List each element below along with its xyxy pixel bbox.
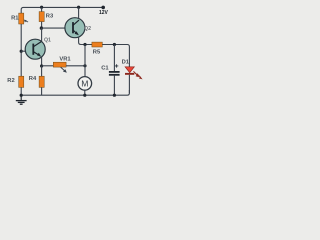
wire: R1 bottom down through base node to R2 <box>20 24 22 76</box>
resistor R3 <box>39 12 44 22</box>
wire: C1 branch top <box>113 45 115 72</box>
wire: +12V top rail from above R1 to supply terminal <box>21 7 102 14</box>
resistor R5 <box>92 42 102 47</box>
LED D1 <box>125 67 134 73</box>
background <box>0 0 150 108</box>
wire: R2 bottom to ground rail <box>20 87 22 95</box>
VR1 wiper arrow <box>61 67 66 71</box>
svg-text:R3: R3 <box>46 14 54 20</box>
wire: base wire to Q2 <box>42 27 73 29</box>
wire: motor bottom to ground rail <box>84 90 86 95</box>
C1 plus sign <box>115 64 118 67</box>
wire: Q1 base wire <box>21 50 33 52</box>
wire: Q1 emitter down to VR1 node <box>41 57 43 66</box>
wire: D1 cathode down <box>128 75 130 93</box>
wire: to VR1 left terminal <box>42 65 54 67</box>
svg-text:R2: R2 <box>7 78 14 84</box>
svg-text:D1: D1 <box>122 60 130 66</box>
wire: Q2 emitter down, R5 rail across, down to D1 <box>79 37 130 67</box>
transistor Q1 <box>25 39 45 59</box>
motor M <box>78 77 92 91</box>
svg-text:R5: R5 <box>93 50 101 56</box>
transistor Q2 <box>65 18 85 38</box>
node: top rail / Q2 collector junction <box>77 6 80 9</box>
wire: motor branch vertical <box>84 45 86 77</box>
node: ground / C1 junction <box>113 94 116 97</box>
node: VR1 / motor branch junction <box>83 64 86 67</box>
node: R3 / Q2 base / Q1 collector junction <box>40 26 43 29</box>
svg-text:R1: R1 <box>11 15 19 21</box>
wire: R4 bottom to ground rail <box>41 87 43 95</box>
svg-text:C1: C1 <box>101 66 109 72</box>
wire: down to Q1 collector <box>41 28 43 42</box>
wire: R4 top <box>41 66 43 76</box>
svg-text:Q2: Q2 <box>84 26 91 32</box>
wire: R3 bottom to base node <box>41 22 43 29</box>
node: emitter rail / motor junction <box>83 43 86 46</box>
potentiometer VR1 <box>53 62 66 67</box>
resistor R4 <box>39 76 44 87</box>
wire: Q2 collector up to rail <box>78 7 80 18</box>
node: Q1 emitter / R4 / VR1 junction <box>40 64 43 67</box>
node: rail / C1 junction <box>113 43 116 46</box>
node: 12V supply terminal <box>101 6 105 10</box>
wire: VR1 right to motor branch <box>66 65 85 67</box>
node: ground / R2 junction <box>20 94 23 97</box>
resistor R1 <box>19 13 24 24</box>
ground symbol <box>16 95 27 104</box>
resistor R2 <box>19 76 24 87</box>
wiper arrow mark next to R1 <box>24 20 27 23</box>
svg-text:VR1: VR1 <box>59 57 71 63</box>
svg-text:M: M <box>81 79 88 89</box>
wire: C1 bottom to ground rail <box>113 76 115 96</box>
wire: R3 top stub <box>41 7 43 12</box>
svg-text:12V: 12V <box>99 10 109 16</box>
svg-text:R4: R4 <box>29 76 37 82</box>
wire: ground bottom rail <box>21 90 129 95</box>
node: ground / motor junction <box>83 94 86 97</box>
node: R1 / R2 / Q1 base junction <box>20 50 23 53</box>
node: top rail / R3 junction <box>40 6 43 9</box>
svg-text:Q1: Q1 <box>44 38 51 44</box>
capacitor C1 <box>109 71 120 73</box>
LED light arrows <box>134 71 138 75</box>
